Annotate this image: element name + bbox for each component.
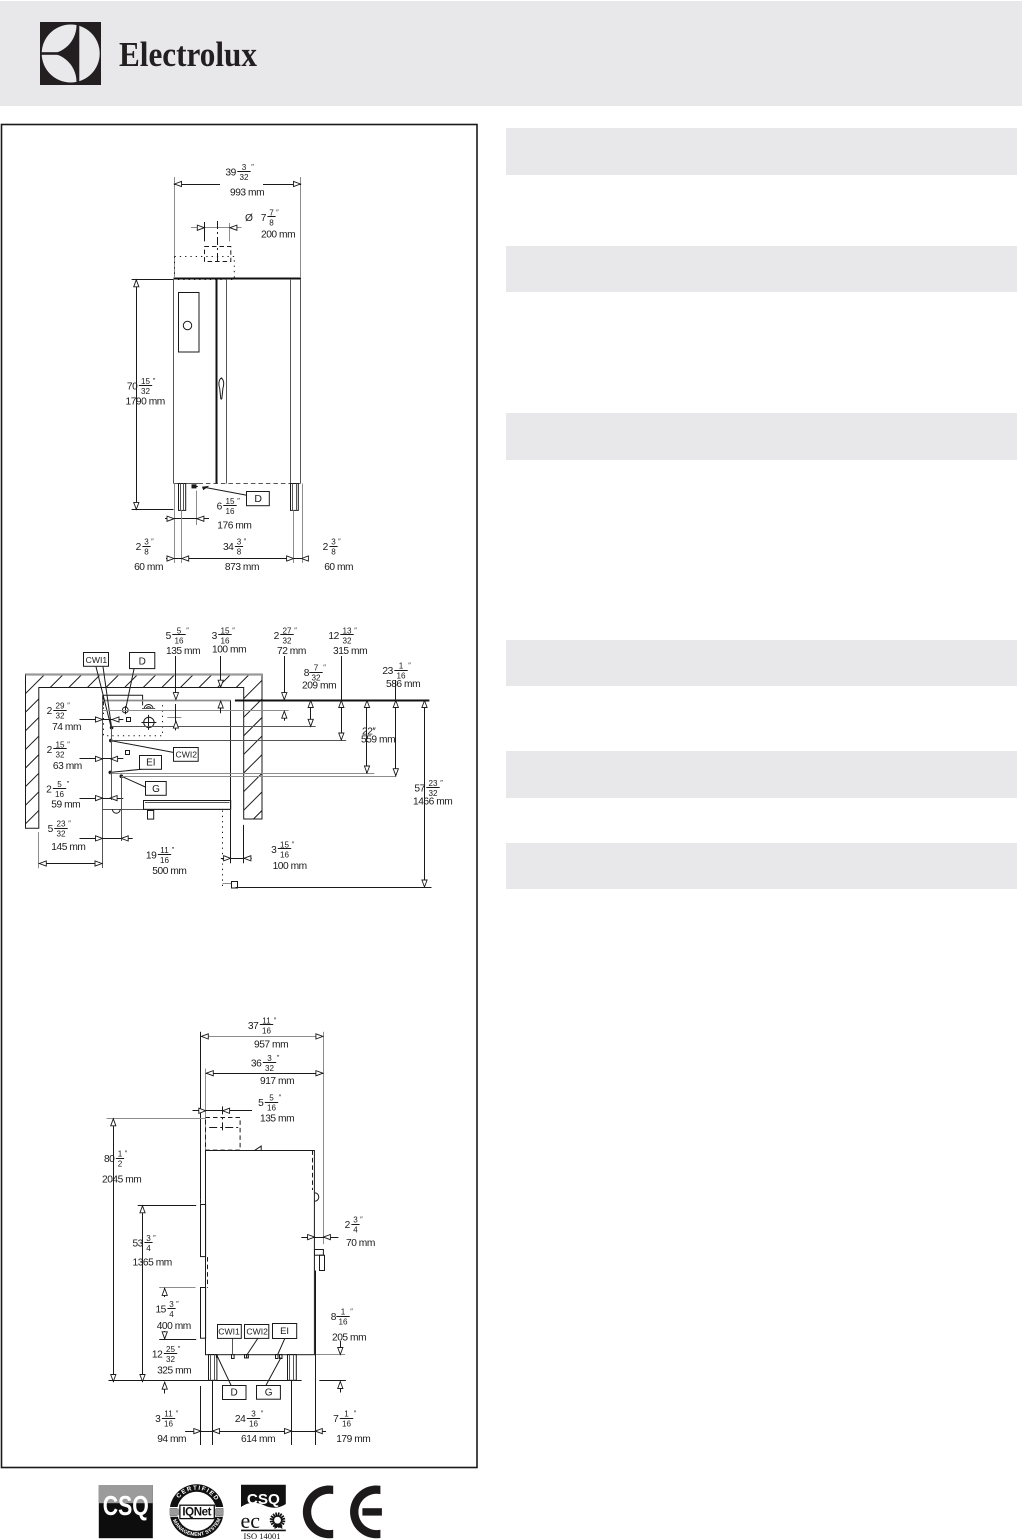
inner door dashed <box>312 1150 314 1190</box>
dim 559mm (22") <box>366 701 368 774</box>
svg-text:Ø: Ø <box>245 213 253 224</box>
label G (side) + leader <box>266 1358 281 1386</box>
svg-text:6: 6 <box>217 501 223 512</box>
dim 957mm <box>201 1036 323 1038</box>
svg-text:325 mm: 325 mm <box>157 1366 191 1377</box>
svg-text:Electrolux: Electrolux <box>119 36 258 74</box>
svg-text:23: 23 <box>382 666 393 677</box>
drawing 2: installation plan view <box>0 626 771 888</box>
CSQ logo <box>99 1485 153 1538</box>
svg-text:34: 34 <box>223 542 234 553</box>
svg-text:63 mm: 63 mm <box>53 761 82 772</box>
svg-text:2: 2 <box>47 745 53 756</box>
floor line <box>109 1380 302 1382</box>
G point <box>120 774 124 778</box>
drawing 1: oven front view <box>126 163 354 573</box>
dim 993mm width: extension lines <box>174 177 176 277</box>
drawing 3: oven side view <box>102 1016 375 1445</box>
appliance right back edge <box>230 700 232 809</box>
bottom dims extensions <box>181 510 183 563</box>
svg-text:15: 15 <box>225 497 235 506</box>
dim 135mm <box>193 1110 253 1112</box>
left leg (side) <box>209 1355 217 1381</box>
CWI1 extension <box>111 728 113 800</box>
svg-text:5: 5 <box>57 780 62 789</box>
dim 200mm duct: line, ticks, arrows <box>191 227 242 229</box>
svg-text:179 mm: 179 mm <box>336 1434 370 1445</box>
small square connector 1 <box>127 718 131 722</box>
svg-text:16: 16 <box>262 1027 272 1036</box>
D drain circle <box>122 707 128 713</box>
right gray bars <box>506 128 1017 889</box>
svg-text:4: 4 <box>169 1310 174 1319</box>
connection zone dotted <box>104 701 163 736</box>
svg-text:60 mm: 60 mm <box>134 562 163 573</box>
dim 145mm <box>80 838 133 840</box>
svg-text:ec: ec <box>241 1508 261 1533</box>
svg-text:ISO 14001: ISO 14001 <box>243 1531 280 1540</box>
duct collar dashed <box>205 247 231 262</box>
cabinet outline (side) <box>206 1151 315 1355</box>
label EI (side) + leader <box>278 1338 286 1355</box>
svg-text:15: 15 <box>141 377 151 386</box>
dim 70mm <box>301 1237 338 1239</box>
dim 209mm <box>310 701 312 727</box>
svg-text:8: 8 <box>331 1312 337 1323</box>
hinge plate upper <box>201 1205 206 1257</box>
svg-text:3: 3 <box>144 537 149 546</box>
svg-text:3: 3 <box>169 1300 174 1309</box>
CWI valve circle <box>144 717 154 727</box>
door (plan) <box>144 801 231 810</box>
footer certification logos <box>99 1484 382 1540</box>
svg-text:16: 16 <box>174 637 184 646</box>
label D + leader <box>126 669 134 707</box>
svg-text:100 mm: 100 mm <box>273 861 307 872</box>
svg-text:G: G <box>152 784 160 795</box>
svg-text:176 mm: 176 mm <box>217 521 251 532</box>
svg-text:80: 80 <box>104 1154 115 1165</box>
svg-text:400 mm: 400 mm <box>157 1321 191 1332</box>
svg-text:60 mm: 60 mm <box>324 562 353 573</box>
bottom dim extensions <box>200 1386 202 1445</box>
svg-text:57: 57 <box>414 783 425 794</box>
svg-text:200 mm: 200 mm <box>261 230 295 241</box>
CE mark <box>303 1486 382 1539</box>
svg-text:94 mm: 94 mm <box>157 1434 186 1445</box>
svg-text:32: 32 <box>55 751 65 760</box>
svg-text:CWI2: CWI2 <box>176 750 198 760</box>
dim 1790mm height: ticks <box>132 279 173 281</box>
svg-text:2: 2 <box>323 542 329 553</box>
cup arcs <box>144 705 153 710</box>
duct flange dashed <box>175 257 235 280</box>
svg-text:1: 1 <box>341 1307 346 1316</box>
dim 315mm <box>341 656 343 740</box>
svg-text:559 mm: 559 mm <box>361 735 395 746</box>
door swing dotted <box>222 811 224 889</box>
label CWI1 (side) + leader <box>232 1338 234 1355</box>
drain fitting <box>192 484 197 488</box>
svg-text:100 mm: 100 mm <box>212 645 246 656</box>
header band <box>0 1 1022 106</box>
label G + leader <box>121 776 146 787</box>
door handle <box>219 378 224 399</box>
svg-text:12: 12 <box>152 1349 163 1360</box>
svg-text:D: D <box>254 493 262 505</box>
svg-text:3: 3 <box>242 163 247 172</box>
label D (side) + leader <box>217 1356 231 1385</box>
svg-text:2: 2 <box>118 1160 123 1169</box>
svg-text:32: 32 <box>166 1355 176 1364</box>
dim 176mm line + arrows <box>165 518 209 520</box>
svg-text:205 mm: 205 mm <box>332 1333 366 1344</box>
label CWI2 (side) + leader <box>247 1338 259 1355</box>
svg-text:8: 8 <box>331 548 336 557</box>
svg-text:32: 32 <box>141 387 151 396</box>
svg-text:500 mm: 500 mm <box>152 866 186 877</box>
svg-text:70 mm: 70 mm <box>346 1238 375 1249</box>
line to 586mm ref <box>121 776 396 778</box>
svg-text:32: 32 <box>55 712 65 721</box>
wall top edge (grey) <box>26 673 263 675</box>
handle bump <box>315 1193 319 1201</box>
svg-text:1: 1 <box>399 661 404 670</box>
svg-text:12: 12 <box>328 631 339 642</box>
dim 500mm <box>38 832 40 868</box>
dim 205mm <box>316 1354 345 1356</box>
dim 72mm <box>284 656 286 699</box>
rear extension line <box>200 1032 202 1200</box>
svg-text:11: 11 <box>160 846 169 855</box>
svg-text:7: 7 <box>314 663 319 672</box>
svg-text:19: 19 <box>146 850 157 861</box>
dim 2045mm: tick + line <box>107 1118 206 1120</box>
small square connector 2 <box>126 751 130 755</box>
svg-text:G: G <box>265 1387 273 1398</box>
svg-text:32: 32 <box>239 173 249 182</box>
control knob <box>183 321 191 329</box>
svg-text:5: 5 <box>48 824 54 835</box>
svg-text:1790 mm: 1790 mm <box>126 397 165 408</box>
CSQ eco logo <box>241 1485 286 1540</box>
dim 586mm <box>395 680 397 776</box>
svg-text:16: 16 <box>338 1318 348 1327</box>
svg-text:3: 3 <box>331 537 336 546</box>
line to 72mm ref <box>103 710 289 712</box>
door handle tab <box>148 811 154 820</box>
svg-text:D: D <box>231 1388 238 1399</box>
label CWI1 + leader <box>96 667 111 727</box>
svg-text:CSQ: CSQ <box>103 1490 149 1521</box>
svg-text:8: 8 <box>269 219 274 228</box>
svg-text:29: 29 <box>55 701 65 710</box>
svg-text:873 mm: 873 mm <box>225 562 259 573</box>
svg-text:8: 8 <box>144 548 149 557</box>
duct dashed (side) <box>206 1118 241 1151</box>
svg-text:4: 4 <box>146 1244 151 1253</box>
label EI + leader <box>110 769 141 772</box>
line to 209mm ref <box>112 726 316 728</box>
open door handle <box>223 883 232 885</box>
right leg <box>291 484 299 511</box>
hinge dashed joint <box>207 1257 209 1288</box>
svg-text:16: 16 <box>249 1420 259 1429</box>
svg-text:4: 4 <box>353 1226 358 1235</box>
dim 63mm <box>80 758 124 760</box>
G extension <box>121 776 123 841</box>
dim 400mm ticks <box>159 1287 195 1289</box>
door split line <box>216 279 218 484</box>
svg-text:74 mm: 74 mm <box>52 722 81 733</box>
svg-text:315 mm: 315 mm <box>333 646 367 657</box>
svg-text:23: 23 <box>56 819 66 828</box>
control panel <box>179 293 200 353</box>
svg-text:32: 32 <box>342 637 352 646</box>
svg-text:3: 3 <box>146 1234 151 1243</box>
svg-text:CSQ: CSQ <box>247 1491 280 1508</box>
svg-text:2: 2 <box>345 1220 351 1231</box>
svg-text:32: 32 <box>56 830 66 839</box>
IQNet seal <box>170 1484 224 1538</box>
svg-text:16: 16 <box>225 507 235 516</box>
svg-text:135 mm: 135 mm <box>166 646 200 657</box>
svg-text:16: 16 <box>55 790 65 799</box>
svg-text:3: 3 <box>251 1409 256 1418</box>
dim 135mm <box>175 656 177 699</box>
EI point <box>109 771 113 775</box>
hinge plate lower <box>201 1288 206 1339</box>
svg-text:586 mm: 586 mm <box>386 679 420 690</box>
svg-text:5: 5 <box>269 1093 274 1102</box>
dim 400mm arrows <box>164 1288 166 1297</box>
cabinet outline <box>174 278 302 280</box>
svg-text:37: 37 <box>248 1021 259 1032</box>
svg-text:3: 3 <box>271 845 277 856</box>
Electrolux logo symbol <box>40 22 101 85</box>
svg-text:11: 11 <box>164 1409 173 1418</box>
svg-text:2: 2 <box>47 706 53 717</box>
dim 100mm bottom <box>230 810 232 863</box>
dim 917mm <box>205 1069 207 1151</box>
duct centre line <box>217 221 219 263</box>
front extension line <box>323 1032 325 1244</box>
svg-text:EI: EI <box>280 1326 289 1337</box>
svg-text:39: 39 <box>225 167 236 178</box>
line to 315mm ref <box>111 740 346 742</box>
connection stubs <box>232 1355 235 1359</box>
svg-text:24: 24 <box>235 1414 246 1425</box>
bottom dim line 94/614/179 <box>185 1431 326 1433</box>
svg-text:IQNet: IQNet <box>182 1507 211 1519</box>
svg-text:16: 16 <box>164 1420 174 1429</box>
svg-text:1466 mm: 1466 mm <box>413 797 452 808</box>
dim 1790mm vertical line + arrows <box>136 279 138 510</box>
svg-text:2045 mm: 2045 mm <box>102 1175 141 1186</box>
svg-text:8: 8 <box>304 668 310 679</box>
svg-text:2: 2 <box>136 542 142 553</box>
appliance left edge <box>102 695 104 868</box>
svg-text:957 mm: 957 mm <box>254 1040 288 1051</box>
svg-text:53: 53 <box>132 1238 143 1249</box>
svg-text:16: 16 <box>160 856 170 865</box>
appliance back line (grey thick) <box>103 700 231 702</box>
svg-text:5: 5 <box>258 1098 264 1109</box>
svg-text:D: D <box>139 656 146 667</box>
hinge bump <box>112 809 120 813</box>
dim 176mm: extensions <box>174 484 176 564</box>
centre mark <box>167 717 181 719</box>
dim 325mm <box>164 1382 166 1393</box>
svg-text:3: 3 <box>267 1054 272 1063</box>
svg-text:3: 3 <box>155 1414 161 1425</box>
appliance top connection housing <box>103 695 142 705</box>
svg-text:5: 5 <box>166 631 172 642</box>
right leg (side) <box>288 1355 297 1381</box>
svg-text:16: 16 <box>342 1420 352 1429</box>
label CWI2 + leader <box>111 741 174 753</box>
svg-text:CWI1: CWI1 <box>218 1327 240 1337</box>
main drawing box <box>2 125 478 1468</box>
svg-text:23: 23 <box>428 779 438 788</box>
svg-text:3: 3 <box>353 1215 358 1224</box>
svg-text:614 mm: 614 mm <box>241 1434 275 1445</box>
svg-text:CWI2: CWI2 <box>246 1327 268 1337</box>
svg-text:1: 1 <box>118 1149 123 1158</box>
wall face reference line (thick) <box>235 700 430 702</box>
svg-text:135 mm: 135 mm <box>260 1114 294 1125</box>
dim 100mm top <box>220 656 222 687</box>
dim 1466mm <box>424 701 426 888</box>
svg-text:32: 32 <box>282 637 292 646</box>
line to 559mm ref <box>110 773 374 775</box>
svg-text:145 mm: 145 mm <box>51 842 85 853</box>
CWI1 point <box>110 726 114 730</box>
svg-text:7: 7 <box>261 213 267 224</box>
bottom dim line 60/873/60 <box>166 558 308 560</box>
svg-text:EI: EI <box>146 758 155 769</box>
svg-text:70: 70 <box>127 381 138 392</box>
svg-text:59 mm: 59 mm <box>51 800 80 811</box>
svg-text:7: 7 <box>333 1414 339 1425</box>
svg-text:3: 3 <box>237 537 242 546</box>
left leg <box>179 484 186 511</box>
svg-text:32: 32 <box>265 1064 275 1073</box>
dim 993mm line + arrows <box>174 184 220 186</box>
svg-text:36: 36 <box>251 1058 262 1069</box>
dim 59mm <box>80 798 124 800</box>
svg-text:25: 25 <box>166 1345 176 1354</box>
svg-text:15: 15 <box>155 1304 166 1315</box>
svg-text:209 mm: 209 mm <box>302 681 336 692</box>
svg-text:CWI1: CWI1 <box>86 655 108 665</box>
svg-text:2: 2 <box>274 631 280 642</box>
svg-text:1365 mm: 1365 mm <box>133 1258 172 1269</box>
svg-text:2: 2 <box>46 784 52 795</box>
side drain pipe <box>315 1250 324 1256</box>
open door front line <box>236 887 432 889</box>
CWI2 point <box>109 739 113 743</box>
svg-text:72 mm: 72 mm <box>277 646 306 657</box>
dim 74mm <box>80 719 124 721</box>
appliance bottom edge <box>103 809 231 811</box>
svg-text:917 mm: 917 mm <box>260 1076 294 1087</box>
svg-text:8: 8 <box>237 548 242 557</box>
svg-text:3: 3 <box>212 631 218 642</box>
svg-text:16: 16 <box>267 1104 277 1113</box>
label D with leader <box>204 487 247 495</box>
door frame line right <box>290 279 292 484</box>
svg-text:1: 1 <box>344 1409 349 1418</box>
dim 1365mm: tick + line <box>138 1205 197 1207</box>
vent flap <box>255 1146 262 1150</box>
svg-text:993 mm: 993 mm <box>230 188 264 199</box>
svg-text:16: 16 <box>280 851 290 860</box>
